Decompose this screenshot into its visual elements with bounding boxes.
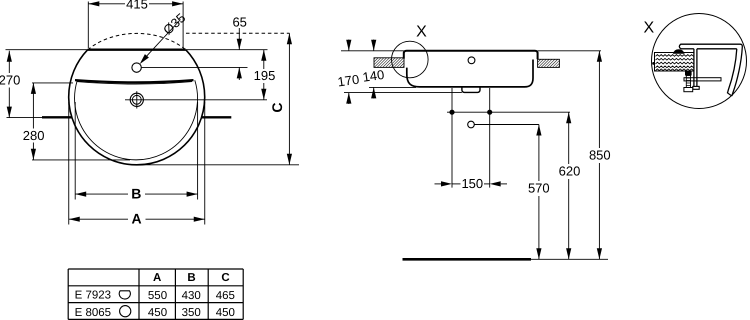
svg-text:150: 150 [461,176,483,191]
svg-text:465: 465 [216,290,235,302]
svg-text:170: 170 [337,72,361,90]
svg-text:280: 280 [23,128,45,143]
svg-text:270: 270 [0,73,20,88]
svg-text:450: 450 [148,307,167,319]
svg-text:450: 450 [216,307,235,319]
svg-text:A: A [132,211,142,227]
svg-text:X: X [416,23,427,40]
svg-text:350: 350 [182,307,201,319]
svg-text:X: X [643,20,654,37]
svg-text:195: 195 [254,68,276,83]
svg-text:620: 620 [559,163,581,178]
svg-text:430: 430 [182,290,201,302]
svg-text:65: 65 [232,14,246,29]
svg-text:A: A [153,272,161,284]
svg-text:B: B [187,272,195,284]
svg-text:B: B [131,186,141,202]
svg-text:550: 550 [148,290,167,302]
svg-text:415: 415 [126,0,148,11]
svg-text:E 7923: E 7923 [75,290,111,302]
svg-text:C: C [221,272,229,284]
svg-text:C: C [269,102,285,112]
svg-text:570: 570 [528,180,550,195]
svg-text:E 8065: E 8065 [75,307,111,319]
svg-text:850: 850 [589,147,611,162]
svg-text:140: 140 [362,67,386,85]
